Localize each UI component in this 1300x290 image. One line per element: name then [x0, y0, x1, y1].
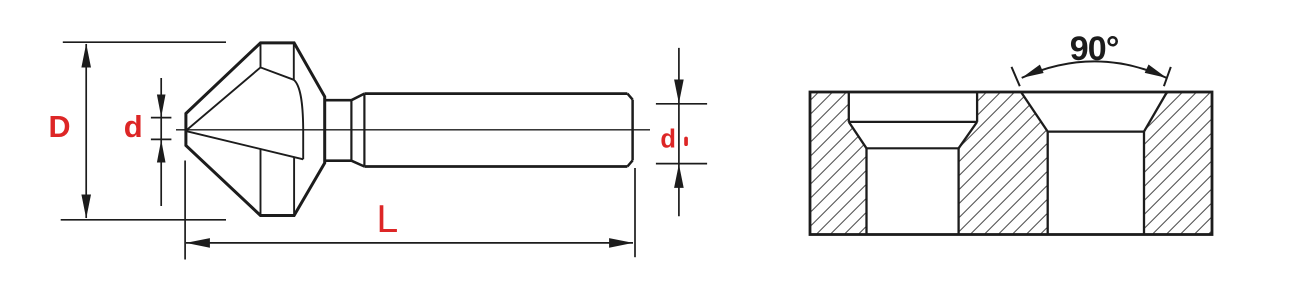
hole 1 chamfer bottom edge: [867, 147, 959, 149]
flute lower vertical left: [260, 149, 262, 215]
dimension d' arrow down: [674, 80, 684, 104]
dimension D bottom extension line: [61, 219, 226, 221]
hole 1 chamfer left: [849, 122, 867, 148]
shank chamfer bottom: [351, 161, 364, 167]
hole 2 countersink right slant: [1144, 92, 1167, 132]
neck bottom line: [325, 159, 352, 162]
hole 2 countersink left slant: [1021, 92, 1048, 132]
hatched material section: [810, 92, 1212, 235]
centerline: [176, 129, 650, 131]
dimension d top tick: [151, 117, 172, 119]
svg-text:L: L: [376, 198, 398, 241]
flute lower edge: [187, 131, 304, 159]
dimension d' line: [678, 48, 680, 216]
label d' prime mark: [684, 137, 688, 146]
hole 1 recess left wall: [848, 92, 850, 122]
flute lower vertical right: [293, 158, 295, 216]
shank end face: [631, 100, 634, 161]
dimension d' arrow up: [674, 164, 684, 188]
angle dimension tick left: [1012, 67, 1020, 86]
shank top line: [364, 92, 627, 95]
svg-text:D: D: [48, 110, 70, 144]
hole 2 countersink bottom edge: [1048, 131, 1144, 133]
hole 1 recess bottom edge: [849, 121, 977, 123]
dimension D line: [85, 44, 87, 218]
hole 2 right wall: [1143, 132, 1145, 234]
block outline: [810, 92, 1212, 235]
dimension D arrow up: [81, 44, 91, 68]
hole 1 right wall: [957, 148, 959, 233]
svg-text:d: d: [660, 126, 676, 154]
dimension d arrow up: [157, 140, 166, 163]
dimension L line: [186, 242, 633, 244]
dimension L right extension line: [634, 168, 636, 257]
countersink head outline: [186, 43, 325, 216]
dimension d' top tick: [656, 103, 707, 105]
shank end chamfer top: [627, 94, 632, 100]
angle dimension tick right: [1164, 67, 1171, 86]
svg-text:90°: 90°: [1070, 30, 1119, 68]
shank chamfer top: [351, 94, 364, 101]
dimension d' bottom tick: [656, 163, 707, 165]
angle arc arrow left: [1020, 65, 1044, 82]
angle dimension arc: [1022, 61, 1167, 78]
angle arc arrow right: [1145, 65, 1169, 83]
hole 2 left wall: [1047, 132, 1049, 234]
shank start vertical: [363, 94, 365, 167]
svg-text:d: d: [124, 109, 143, 144]
dimension L arrow right: [609, 238, 633, 248]
dimension L left extension line: [184, 161, 186, 260]
shank end chamfer bottom: [627, 160, 632, 166]
shank bottom line: [364, 165, 627, 168]
hole 1 left wall: [865, 148, 867, 233]
dimension D arrow down: [81, 195, 91, 219]
flute corner vertical right: [293, 43, 295, 80]
dimension d arrow down: [157, 95, 166, 118]
hole 1 chamfer right: [959, 122, 978, 148]
flute cutting edge curve: [294, 80, 303, 160]
dimension D top extension line: [63, 41, 226, 43]
neck end vertical: [350, 100, 352, 161]
flute upper edge: [187, 67, 294, 130]
dimension d bottom tick: [151, 138, 172, 140]
neck top line: [325, 99, 352, 102]
dimension d line: [160, 78, 162, 206]
dimension L arrow left: [186, 238, 210, 248]
hole 1 recess right wall: [976, 92, 978, 122]
flute corner vertical left: [260, 43, 262, 68]
